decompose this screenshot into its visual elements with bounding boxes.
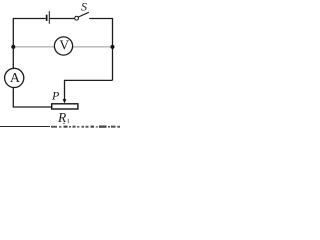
switch S pivot circle (75, 16, 79, 20)
battery B short thick plate (46, 15, 48, 21)
wire top-left to battery (13, 19, 45, 48)
voltmeter branch wire right (thin gray) (73, 46, 113, 48)
label R subscript (68, 119, 69, 123)
svg-text:S: S (81, 0, 87, 14)
wire right corner to slider (65, 80, 113, 100)
wire ammeter to bottom-left corner to rheostat (13, 88, 51, 108)
bottom cut-off text dashes (51, 123, 120, 128)
switch S blade (78, 12, 88, 17)
slider arrowhead P (63, 99, 67, 103)
voltmeter V circle (54, 37, 72, 55)
wire switch to top-right corner, down right side (89, 19, 112, 81)
battery B long thin plate (49, 11, 50, 24)
junction node right (111, 45, 115, 49)
junction node left (11, 45, 15, 49)
wire left side down to ammeter (12, 47, 14, 68)
svg-text:R: R (57, 110, 67, 125)
svg-text:V: V (59, 38, 69, 53)
rheostat R1 box (52, 104, 78, 109)
svg-text:A: A (10, 71, 21, 86)
svg-text:P: P (51, 88, 60, 102)
ammeter A circle (5, 68, 24, 87)
bottom document rule (0, 126, 50, 128)
wire battery to switch (50, 18, 75, 20)
voltmeter branch wire left (thin gray) (13, 46, 54, 48)
